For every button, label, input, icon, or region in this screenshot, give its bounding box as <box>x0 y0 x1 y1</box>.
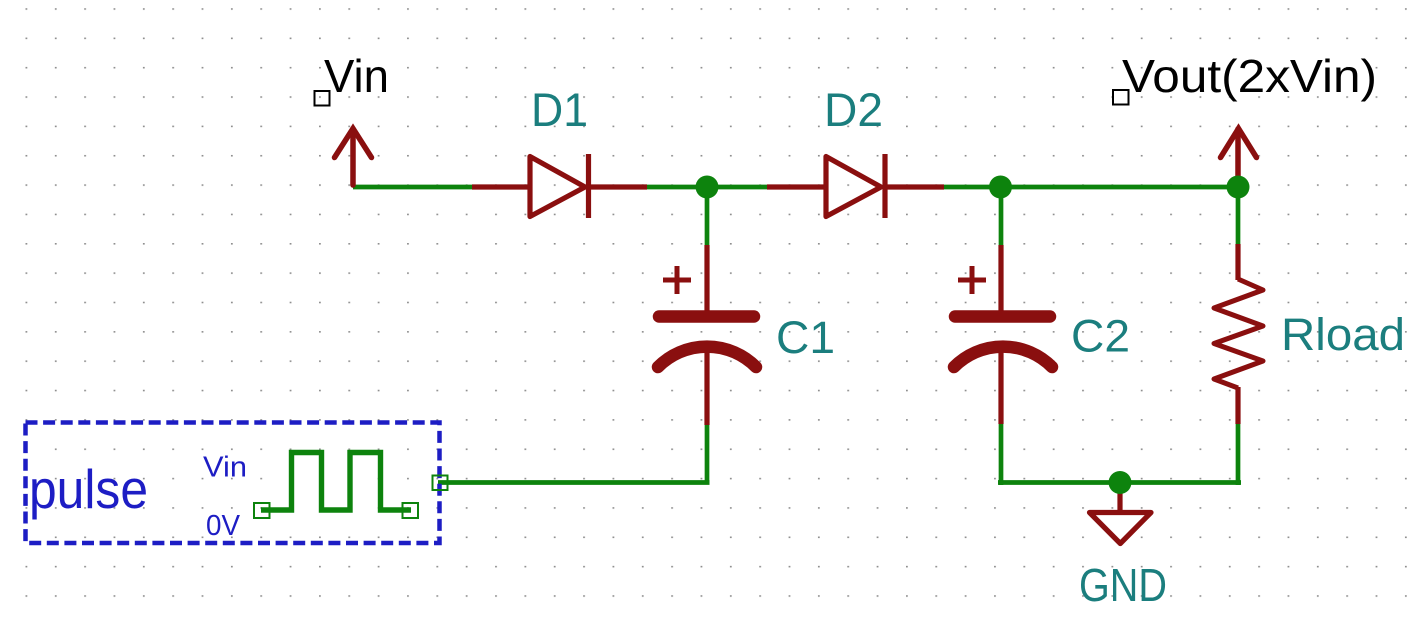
net arrow Vin <box>335 129 372 186</box>
junction C <box>1227 176 1250 199</box>
svg-text:pulse: pulse <box>29 458 148 520</box>
wire D1 to D2 <box>646 185 768 190</box>
pulse waveform start pin square <box>254 503 270 518</box>
wire bottom ground bus <box>998 480 1241 485</box>
pulse source box <box>26 423 440 544</box>
svg-text:0V: 0V <box>206 510 240 542</box>
junction A <box>696 176 719 199</box>
svg-text:Vout(2xVin): Vout(2xVin) <box>1122 50 1377 102</box>
diode D1 <box>472 154 647 218</box>
capacitor C1 <box>658 245 756 425</box>
wire C2 bottom down <box>999 423 1004 485</box>
resistor Rload <box>1214 244 1263 424</box>
svg-text:Vin: Vin <box>324 50 389 102</box>
svg-text:D1: D1 <box>531 83 588 136</box>
capacitor C2 <box>954 245 1052 424</box>
label anchor square Vin <box>315 91 330 106</box>
junction GND <box>1109 471 1132 494</box>
svg-text:C2: C2 <box>1071 311 1130 362</box>
ground symbol <box>1090 487 1152 544</box>
label anchor square Vout <box>1113 90 1129 105</box>
wire junction B down to C2 <box>999 187 1004 247</box>
pulse output pin square <box>433 476 448 491</box>
wire Vin to D1 (net Vin) <box>353 185 473 190</box>
pulse waveform <box>261 453 411 511</box>
wire C1 bottom down <box>705 424 710 482</box>
svg-text:Vin: Vin <box>203 452 247 484</box>
wire Rload bottom down <box>1236 423 1241 485</box>
junction B <box>989 176 1012 199</box>
svg-text:D2: D2 <box>824 83 883 136</box>
wire junction A down to C1 <box>705 187 710 247</box>
pulse waveform end pin square <box>403 503 419 518</box>
svg-text:C1: C1 <box>776 312 835 363</box>
diode D2 <box>767 154 944 218</box>
wire pulse output to C1 bottom <box>438 480 710 485</box>
svg-text:GND: GND <box>1079 559 1167 611</box>
wire D2 to Vout <box>944 185 1238 190</box>
svg-text:Rload: Rload <box>1281 309 1405 360</box>
net arrow Vout <box>1221 129 1257 186</box>
wire junction C down to Rload <box>1236 187 1241 245</box>
